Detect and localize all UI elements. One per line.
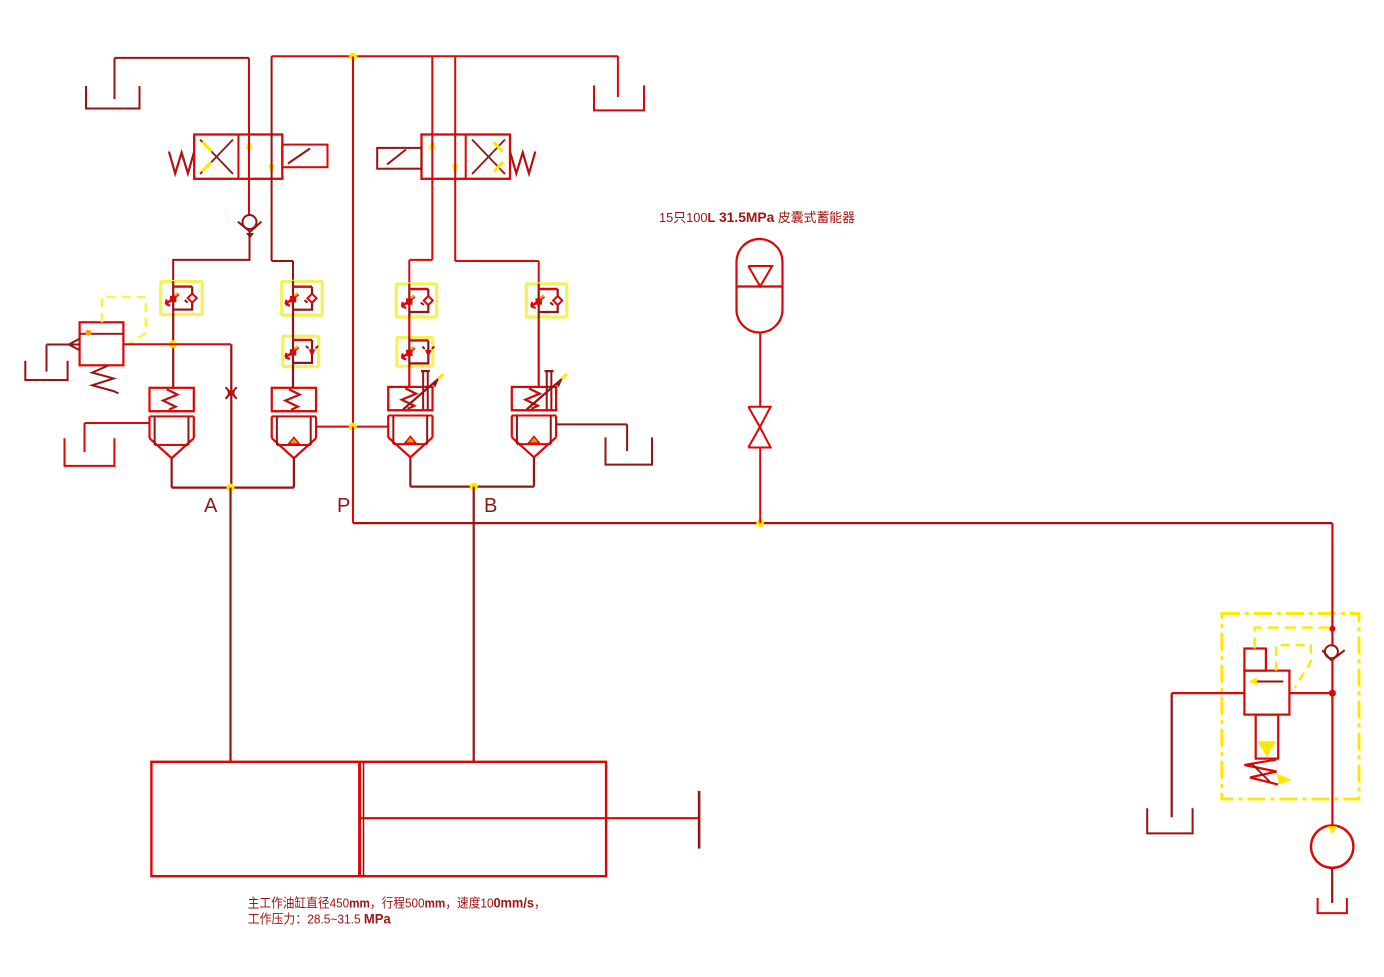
check valve CK1 bbox=[238, 215, 262, 239]
wire col1 feed bbox=[173, 232, 249, 282]
wire col3 feed bbox=[409, 260, 432, 284]
svg-text:A: A bbox=[204, 495, 218, 517]
cartridge valve CT1 bbox=[150, 388, 194, 458]
wire RV2 right port bbox=[1289, 692, 1332, 694]
wire RV1 to tank bbox=[47, 345, 69, 372]
DV1 crossed-arrows (left box) bbox=[200, 140, 233, 175]
wire DV2 port to rail2 (left) bbox=[431, 56, 433, 260]
RV2 pilot dashed inner bbox=[1276, 645, 1311, 688]
wire pump suction bbox=[1331, 868, 1333, 903]
RV1 orange mark bbox=[85, 330, 91, 336]
node P-top junction bbox=[349, 53, 357, 61]
cartridge valve CT4 bbox=[512, 371, 567, 457]
cylinder CYL1 bbox=[151, 762, 699, 876]
svg-text:P: P bbox=[337, 495, 350, 517]
solenoid of DV2 bbox=[377, 148, 421, 169]
DV2 straight arrows (left box) bbox=[429, 139, 459, 176]
spring W of DV2 bbox=[510, 152, 535, 174]
tank T2 bbox=[594, 86, 644, 111]
throttle-check valve F3b bbox=[397, 337, 434, 367]
DV2 crossed-arrows (right box) bbox=[472, 140, 505, 175]
tank T1 bbox=[86, 86, 140, 109]
wire B to cylinder bbox=[473, 487, 475, 762]
wire supply rail bbox=[353, 522, 1332, 524]
wire CT1 tip bbox=[171, 457, 173, 487]
node B junction bbox=[470, 483, 478, 491]
node relief junction bbox=[169, 340, 177, 348]
tank T5 bbox=[606, 437, 653, 464]
wire RV1 to junction bbox=[123, 344, 231, 487]
svg-text:工作压力：28.5~31.5 MPa: 工作压力：28.5~31.5 MPa bbox=[248, 911, 391, 927]
label P bbox=[337, 495, 350, 517]
pilot relief valve RV1 body bbox=[80, 322, 124, 365]
wire CT1 left port to tank bbox=[85, 423, 150, 452]
wire CT4 tip bbox=[533, 457, 535, 487]
throttle-check valve F1 bbox=[161, 281, 202, 315]
wire accumulator stem bbox=[759, 333, 761, 407]
tank T3 bbox=[25, 361, 67, 380]
wire shutoff to rail bbox=[759, 448, 761, 524]
RV1 arrow bbox=[69, 339, 80, 351]
wire P riser bbox=[352, 57, 354, 427]
wire pump pressure line upper bbox=[1331, 523, 1333, 645]
throttle-check valve F2b bbox=[283, 336, 319, 367]
orifice )( symbol bbox=[226, 387, 237, 399]
wire col4 feed bbox=[455, 261, 539, 284]
wire CT3 tip bbox=[409, 457, 411, 487]
svg-text:B: B bbox=[484, 495, 497, 517]
wire CT4 right port to tank bbox=[556, 424, 628, 451]
throttle-check valve F2 bbox=[282, 281, 323, 316]
svg-text:15只100L 31.5MPa 皮囊式蓄能器: 15只100L 31.5MPa 皮囊式蓄能器 bbox=[659, 209, 855, 225]
pump PU1 bbox=[1311, 825, 1353, 867]
wire CT2-CT3 ports to P bbox=[317, 426, 388, 428]
label cylinder spec line2 bbox=[248, 911, 391, 927]
throttle-check valve F4 bbox=[526, 284, 567, 318]
DV1 straight arrows (right box) bbox=[246, 139, 275, 176]
directional valve DV1 body bbox=[194, 135, 282, 179]
wire top-right rail bbox=[272, 56, 618, 97]
wire CT2 tip bbox=[293, 457, 295, 487]
wire RV2 left port to tank bbox=[1172, 693, 1245, 817]
wire DV1 port to rail1 bbox=[248, 58, 250, 215]
tank T4 bbox=[65, 438, 115, 466]
label cylinder spec line1 bbox=[248, 895, 546, 911]
wire DV2 port to rail2 (right) bbox=[454, 56, 456, 261]
throttle-check valve F3 bbox=[396, 284, 437, 318]
node accumulator junction bbox=[756, 519, 764, 527]
wire A to cylinder bbox=[229, 488, 231, 762]
label accumulator bbox=[659, 209, 855, 225]
wire col2 to valve bbox=[292, 315, 294, 388]
RV2 pilot dashed outer bbox=[1255, 628, 1333, 649]
svg-text:主工作油缸直径450mm，行程500mm，速度100mm/s: 主工作油缸直径450mm，行程500mm，速度100mm/s， bbox=[248, 895, 546, 911]
shutoff valve SV1 bbox=[748, 407, 770, 448]
wire A header bbox=[172, 487, 294, 489]
tank T7 bbox=[1318, 898, 1347, 913]
node P junction bbox=[349, 423, 357, 431]
cartridge valve CT2 bbox=[272, 388, 316, 458]
wire col1 to valve bbox=[172, 315, 174, 388]
node relief tap bbox=[1329, 690, 1336, 697]
wire B header bbox=[410, 486, 534, 488]
enclosure dash-dot box bbox=[1222, 614, 1359, 800]
RV1 spring bbox=[92, 366, 118, 394]
wire pump pressure line lower bbox=[1331, 658, 1333, 825]
label A bbox=[204, 495, 218, 517]
unloading relief valve RV2 bbox=[1244, 649, 1289, 759]
spring W of DV1 bbox=[169, 152, 194, 174]
check valve CK2 bbox=[1322, 645, 1345, 660]
node pilot tap bbox=[1329, 626, 1335, 632]
RV1 pilot dashed line bbox=[102, 297, 146, 345]
RV2 spring bbox=[1245, 760, 1292, 785]
wire col3 to valve bbox=[408, 317, 410, 387]
tank T6 bbox=[1147, 808, 1192, 833]
wire col2 feed bbox=[272, 261, 293, 281]
wire DV1 port to rail2 bbox=[271, 56, 273, 261]
solenoid of DV1 bbox=[282, 145, 327, 168]
wire top-left rail bbox=[115, 58, 250, 99]
cylinder rod end bar bbox=[698, 791, 701, 849]
cartridge valve CT3 bbox=[388, 371, 443, 457]
directional valve DV2 body bbox=[422, 135, 511, 179]
accumulator AC1 bbox=[737, 239, 783, 333]
node A junction bbox=[227, 484, 235, 492]
wire col4 to valve bbox=[538, 317, 540, 387]
label B bbox=[484, 495, 497, 517]
wire P down bbox=[352, 427, 354, 523]
